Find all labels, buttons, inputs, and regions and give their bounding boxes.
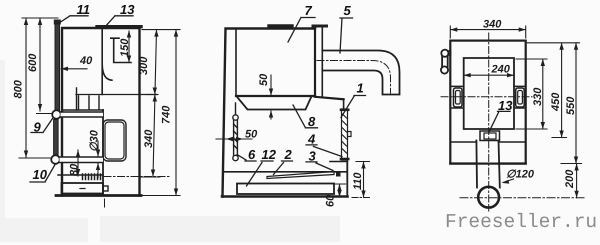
svg-text:9: 9 [34,120,42,135]
horizontal centerline through outlet [460,197,585,199]
pipe outlet circle Ø120 [478,187,499,208]
dim 40 [61,68,87,70]
dim Ø30 arrows [97,141,99,178]
hopper funnel 8 [238,98,312,110]
vertical divider wall [102,110,104,196]
leader 1 [341,96,366,118]
top view body outline (view 3) [450,41,525,164]
svg-text:2: 2 [284,147,293,162]
left view texts [13,2,173,182]
ash floor line [58,174,103,176]
svg-text:4: 4 [307,132,316,147]
dim 50 (gauge) [216,138,252,140]
leader 9 [31,119,53,133]
middle view texts [245,3,364,207]
svg-text:550: 550 [565,96,577,115]
leader 5 [340,18,353,53]
dim 300/340 line [140,30,180,196]
lower pipe union (10) [51,155,60,164]
svg-text:11: 11 [77,2,91,17]
flue riser duct [315,28,322,97]
svg-text:50: 50 [245,129,258,141]
hatch 13 (view 3) [480,131,500,141]
dim 330 [516,59,547,129]
leader 10 [30,164,56,182]
slide damper bar 4 [341,109,351,160]
svg-text:110: 110 [352,172,364,190]
dim 60 [333,184,346,197]
bottom centerline [104,199,106,207]
back channel corner [343,99,345,109]
horizontal centerline upper [441,96,532,98]
upper pipe union (9) [52,110,61,119]
leader 12 [247,161,274,186]
water level gauge 6 [233,103,238,161]
damper flap 3 [267,172,334,179]
svg-text:7: 7 [305,3,313,18]
chamber floor line B [62,109,103,111]
riser water pipe (vertical, filled) [54,20,61,156]
svg-text:240: 240 [491,64,511,76]
damper pivot block [336,172,341,177]
base bottom [222,195,348,198]
channel top line [223,171,347,173]
svg-text:300: 300 [138,56,150,75]
svg-text:12: 12 [262,147,277,162]
svg-text:150: 150 [119,38,131,57]
leader 3 [306,162,333,171]
svg-text:340: 340 [483,19,502,31]
leader 6 [237,155,256,162]
svg-text:340: 340 [143,129,155,148]
svg-text:740: 740 [161,105,173,124]
arrowheads 300/340/740 [151,30,178,196]
scan shading [0,60,340,242]
drawer handle [103,186,108,191]
grate ticks below shelf [77,88,100,110]
left wall slot [450,86,463,108]
dash-dot base line [352,197,370,199]
svg-text:80: 80 [69,163,81,176]
boiler body outline (view 2) [223,29,316,197]
leader 7 [288,18,315,43]
dim 80 arrows [77,150,79,176]
riser cap [313,25,327,28]
hopper top line [236,96,344,99]
ash drawer [62,183,104,194]
svg-text:13: 13 [120,2,135,17]
svg-text:50: 50 [258,73,270,86]
leader 8 [293,105,318,128]
svg-text:200: 200 [564,169,576,189]
svg-text:40: 40 [79,55,93,67]
right view texts [483,19,577,190]
inner bottom line [452,141,524,143]
firebox body outline (view 1) [56,28,141,196]
leader 13 (view1) [104,16,133,28]
dim 450 [527,43,580,138]
svg-text:13: 13 [498,98,513,113]
dim 550 [561,43,582,164]
bottom skirt split by pipe [450,162,525,164]
chimney pipe 5 [322,51,399,95]
right wall slot [514,86,526,108]
water pipe stubs (rear view) [441,50,450,74]
dim 110 [356,162,370,198]
firebox right wall [314,29,316,97]
svg-text:10: 10 [33,167,48,182]
dim 150 [128,31,130,63]
svg-text:800: 800 [13,79,25,98]
svg-text:8: 8 [308,114,316,129]
svg-text:3: 3 [309,149,317,164]
inner opening [464,58,514,129]
dim 50 (hopper) [270,75,272,119]
chimney stub pipe [476,141,499,188]
upper horizontal pipe into firebox [61,112,104,117]
svg-text:1: 1 [357,81,364,96]
leader 13 (view 3) [489,111,510,132]
base right wall [346,162,348,197]
grate comb [83,174,101,180]
axis dash-dot line [104,176,171,178]
dim 200 [576,164,578,198]
inner left wall [235,29,237,96]
svg-text:330: 330 [532,87,544,106]
chimney centerline [317,61,391,94]
leader 4 [306,145,342,157]
shelf line A with dim extension [76,94,157,96]
leader 11 [58,16,89,24]
svg-text:∅120: ∅120 [506,169,535,181]
top hatch plate 13 (view 1) [97,25,141,28]
lower horizontal pipe into firebox [60,157,104,163]
svg-text:∅30: ∅30 [89,129,101,152]
arrowheads 800/600 [24,18,42,158]
svg-text:6: 6 [248,147,256,162]
leader Ø120 [504,179,514,182]
dim 340 [450,26,525,38]
outlet top line [330,161,347,163]
ash tray 12 [237,184,334,195]
fire door (rounded) [103,120,126,161]
svg-text:5: 5 [344,3,352,18]
top hatch plate (view 2) [269,24,292,27]
dim 240 [464,74,514,76]
leader 2 [274,161,293,175]
svg-text:600: 600 [27,53,39,72]
smoke baffle hook inside firebox [102,28,131,95]
svg-text:Freeseller.ru: Freeseller.ru [445,211,597,233]
vertical centerline [488,33,490,211]
svg-text:450: 450 [550,92,562,112]
svg-text:60: 60 [325,194,337,207]
dim 800 line [19,18,58,158]
